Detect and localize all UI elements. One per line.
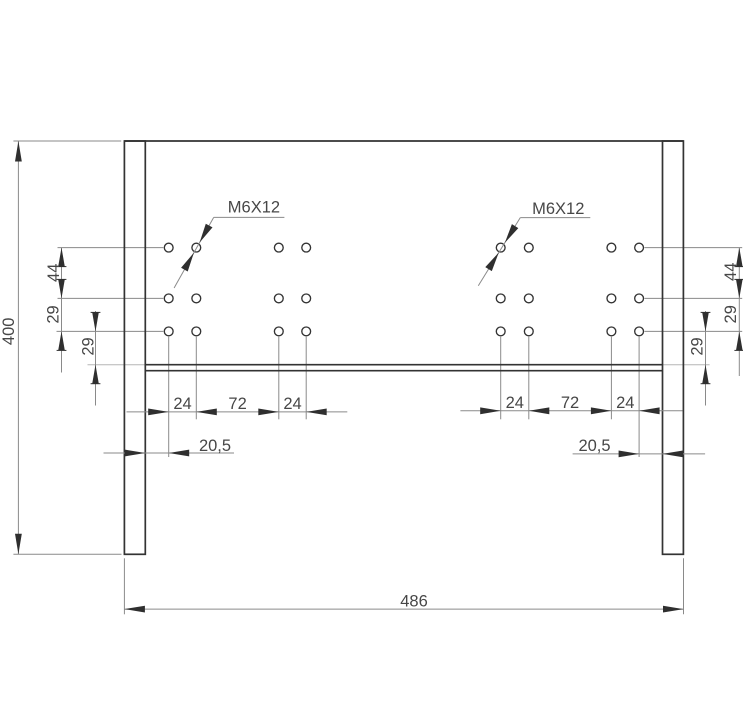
- svg-text:29: 29: [722, 305, 740, 323]
- dimension 24-72-24 left: arrowhead at column L1: [148, 409, 169, 416]
- hole L1 row 2: [164, 294, 173, 303]
- callout M6X12 right: leader line: [478, 218, 520, 286]
- callout M6X12 right: lower arrowhead: [485, 253, 499, 272]
- extension line hole row 1 right: [645, 247, 743, 249]
- svg-text:44: 44: [722, 263, 740, 281]
- extension line hole column R1: [500, 337, 502, 420]
- extension line plate bottom left: [88, 364, 146, 366]
- hole L3 row 2: [274, 294, 283, 303]
- svg-text:29: 29: [80, 337, 98, 355]
- extension line hole column L4: [305, 337, 307, 420]
- dimension 20,5 left: dimension line: [104, 452, 235, 454]
- extension line hole row 3 right: [645, 330, 743, 332]
- extension line hole column R4: [638, 337, 640, 457]
- hole L4 row 1: [302, 243, 311, 252]
- dimension 486: right extension line: [683, 558, 685, 614]
- dimension 24-72-24 right: arrowhead at column R2: [529, 407, 550, 414]
- top edge of plate and rails: [124, 140, 683, 142]
- hole R3 row 1: [607, 243, 616, 252]
- extension line hole column R2: [528, 337, 530, 420]
- hole R4 row 2: [635, 294, 644, 303]
- svg-text:20,5: 20,5: [199, 437, 231, 455]
- hole L1 row 1: [164, 243, 173, 252]
- dimension 24-72-24 left: arrowhead at column L4: [306, 409, 327, 416]
- callout M6X12 left: underline: [214, 216, 285, 218]
- dimension 44 right: top arrowhead: [736, 248, 743, 267]
- extension line hole row 3 left: [57, 330, 164, 332]
- hole R4 row 3: [635, 327, 644, 336]
- dimension 29 lower left: lower arrowhead: [92, 365, 99, 384]
- svg-text:24: 24: [616, 394, 634, 412]
- dimension 29 lower right: lower arrowhead: [702, 365, 709, 384]
- dimension 24-72-24 left: arrowhead at column L2: [196, 409, 217, 416]
- dimension 400: bottom arrowhead: [15, 534, 22, 555]
- hole R3 row 3: [607, 327, 616, 336]
- hole L3 row 3: [274, 327, 283, 336]
- extension line hole row 1 left: [58, 247, 164, 249]
- hole L2 row 2: [192, 294, 201, 303]
- svg-text:24: 24: [173, 395, 191, 413]
- hole L1 row 3: [164, 327, 173, 336]
- right rail: [663, 141, 684, 554]
- svg-text:M6X12: M6X12: [532, 200, 584, 218]
- svg-text:44: 44: [45, 264, 63, 282]
- svg-text:24: 24: [506, 394, 524, 412]
- dimension 24-72-24 left: arrowhead at column L3: [258, 409, 279, 416]
- dimension 400: top extension line: [13, 140, 121, 142]
- dimension 24-72-24 right: arrowhead at column R3: [591, 407, 612, 414]
- extension line hole column L2: [195, 337, 197, 420]
- dimension 29 upper right: lower arrowhead: [736, 331, 743, 350]
- hole L4 row 2: [302, 294, 311, 303]
- dimension 24-72-24 left: dimension line: [127, 411, 348, 413]
- extension line hole row 2 left: [58, 297, 164, 299]
- hole R4 row 1: [635, 243, 644, 252]
- dimension 44 right: dimension line: [738, 248, 740, 376]
- extension line plate bottom right: [663, 364, 710, 366]
- dimension 486: left arrowhead: [124, 606, 144, 613]
- dimension 44 left: dimension line: [61, 248, 63, 373]
- svg-text:20,5: 20,5: [578, 437, 610, 455]
- left rail: [124, 141, 145, 554]
- dimension 24-72-24 right: arrowhead at column R4: [639, 407, 660, 414]
- dimension 486: dimension line: [124, 608, 683, 610]
- dimension 29 lower left: dimension line: [95, 311, 97, 406]
- hole R1 row 2: [496, 294, 505, 303]
- dimension 400: bottom extension line: [13, 553, 121, 555]
- hole R2 row 3: [524, 327, 533, 336]
- svg-text:72: 72: [228, 395, 246, 413]
- callout M6X12 right: upper arrowhead: [505, 224, 518, 243]
- hole R1 row 1: [496, 243, 505, 252]
- svg-text:M6X12: M6X12: [228, 198, 280, 216]
- extension line hole column R3: [610, 337, 612, 420]
- dimension 400: dimension line: [17, 141, 19, 554]
- hole R1 row 3: [496, 327, 505, 336]
- hole L3 row 1: [274, 243, 283, 252]
- dimension 20,5 right: dimension line: [573, 453, 706, 455]
- dimension 486: right arrowhead: [663, 606, 684, 613]
- dimension 29 upper left: lower arrowhead: [58, 331, 65, 350]
- dimension 486: left extension line: [123, 558, 125, 614]
- plate bottom edge: [145, 364, 662, 366]
- dimension 20,5 left: arrowhead at column L1: [169, 450, 190, 457]
- dimension 44 left: bottom arrowhead: [58, 279, 65, 298]
- svg-text:400: 400: [0, 318, 18, 346]
- dimension 29 lower right: upper arrowhead: [702, 312, 709, 331]
- hole R2 row 2: [524, 294, 533, 303]
- callout M6X12 left: leader line: [174, 217, 214, 288]
- svg-text:486: 486: [400, 592, 428, 610]
- extension line hole row 2 right: [645, 297, 743, 299]
- callout M6X12 right: underline: [520, 217, 590, 219]
- dimension 20,5 left: arrowhead at rail inner edge: [125, 450, 146, 457]
- hole R3 row 2: [607, 294, 616, 303]
- svg-text:72: 72: [561, 394, 579, 412]
- callout M6X12 left: upper arrowhead: [200, 224, 213, 243]
- dimension 400: top arrowhead: [15, 141, 22, 162]
- dimension 44 left: top arrowhead: [58, 248, 65, 267]
- plate lower parallel edge: [145, 370, 662, 372]
- extension line hole column L3: [278, 337, 280, 420]
- svg-text:29: 29: [45, 305, 63, 323]
- dimension 24-72-24 right: arrowhead at column R1: [480, 407, 501, 414]
- hole L4 row 3: [302, 327, 311, 336]
- svg-text:24: 24: [283, 395, 301, 413]
- svg-text:29: 29: [688, 337, 706, 355]
- hole L2 row 1: [192, 243, 201, 252]
- hole L2 row 3: [192, 327, 201, 336]
- dimension 20,5 right: arrowhead at rail inner edge: [663, 451, 684, 458]
- callout M6X12 left: lower arrowhead: [181, 253, 194, 272]
- dimension 20,5 right: arrowhead at column R4: [619, 451, 640, 458]
- hole R2 row 1: [524, 243, 533, 252]
- dimension 29 lower left: upper arrowhead: [92, 312, 99, 331]
- dimension 24-72-24 right: dimension line: [460, 410, 682, 412]
- dimension 29 lower right: dimension line: [705, 311, 707, 406]
- dimension 44 right: bottom arrowhead: [736, 279, 743, 298]
- extension line hole column L1: [168, 337, 170, 457]
